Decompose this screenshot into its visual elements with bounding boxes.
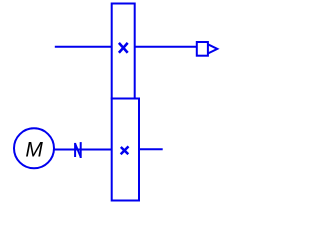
working tool square	[197, 42, 208, 56]
working tool triangle pointer	[208, 44, 217, 53]
gear mark x upper	[119, 43, 128, 53]
coupling N diagonal	[75, 144, 81, 158]
motor M1 circle	[14, 128, 54, 168]
wire input shaft left segment	[55, 46, 112, 48]
gearbox 1 (upper variator block)	[112, 4, 135, 99]
svg-text:M: M	[25, 139, 43, 162]
wire output shaft right segment	[135, 46, 197, 48]
gearbox 2 (lower block)	[112, 99, 139, 201]
wire output stub right of gearbox 2	[139, 148, 163, 150]
coupling N left bar	[74, 143, 76, 157]
coupling N right bar	[80, 142, 82, 158]
wire motor to gearbox 2	[54, 149, 112, 151]
gear mark x lower	[121, 147, 129, 154]
